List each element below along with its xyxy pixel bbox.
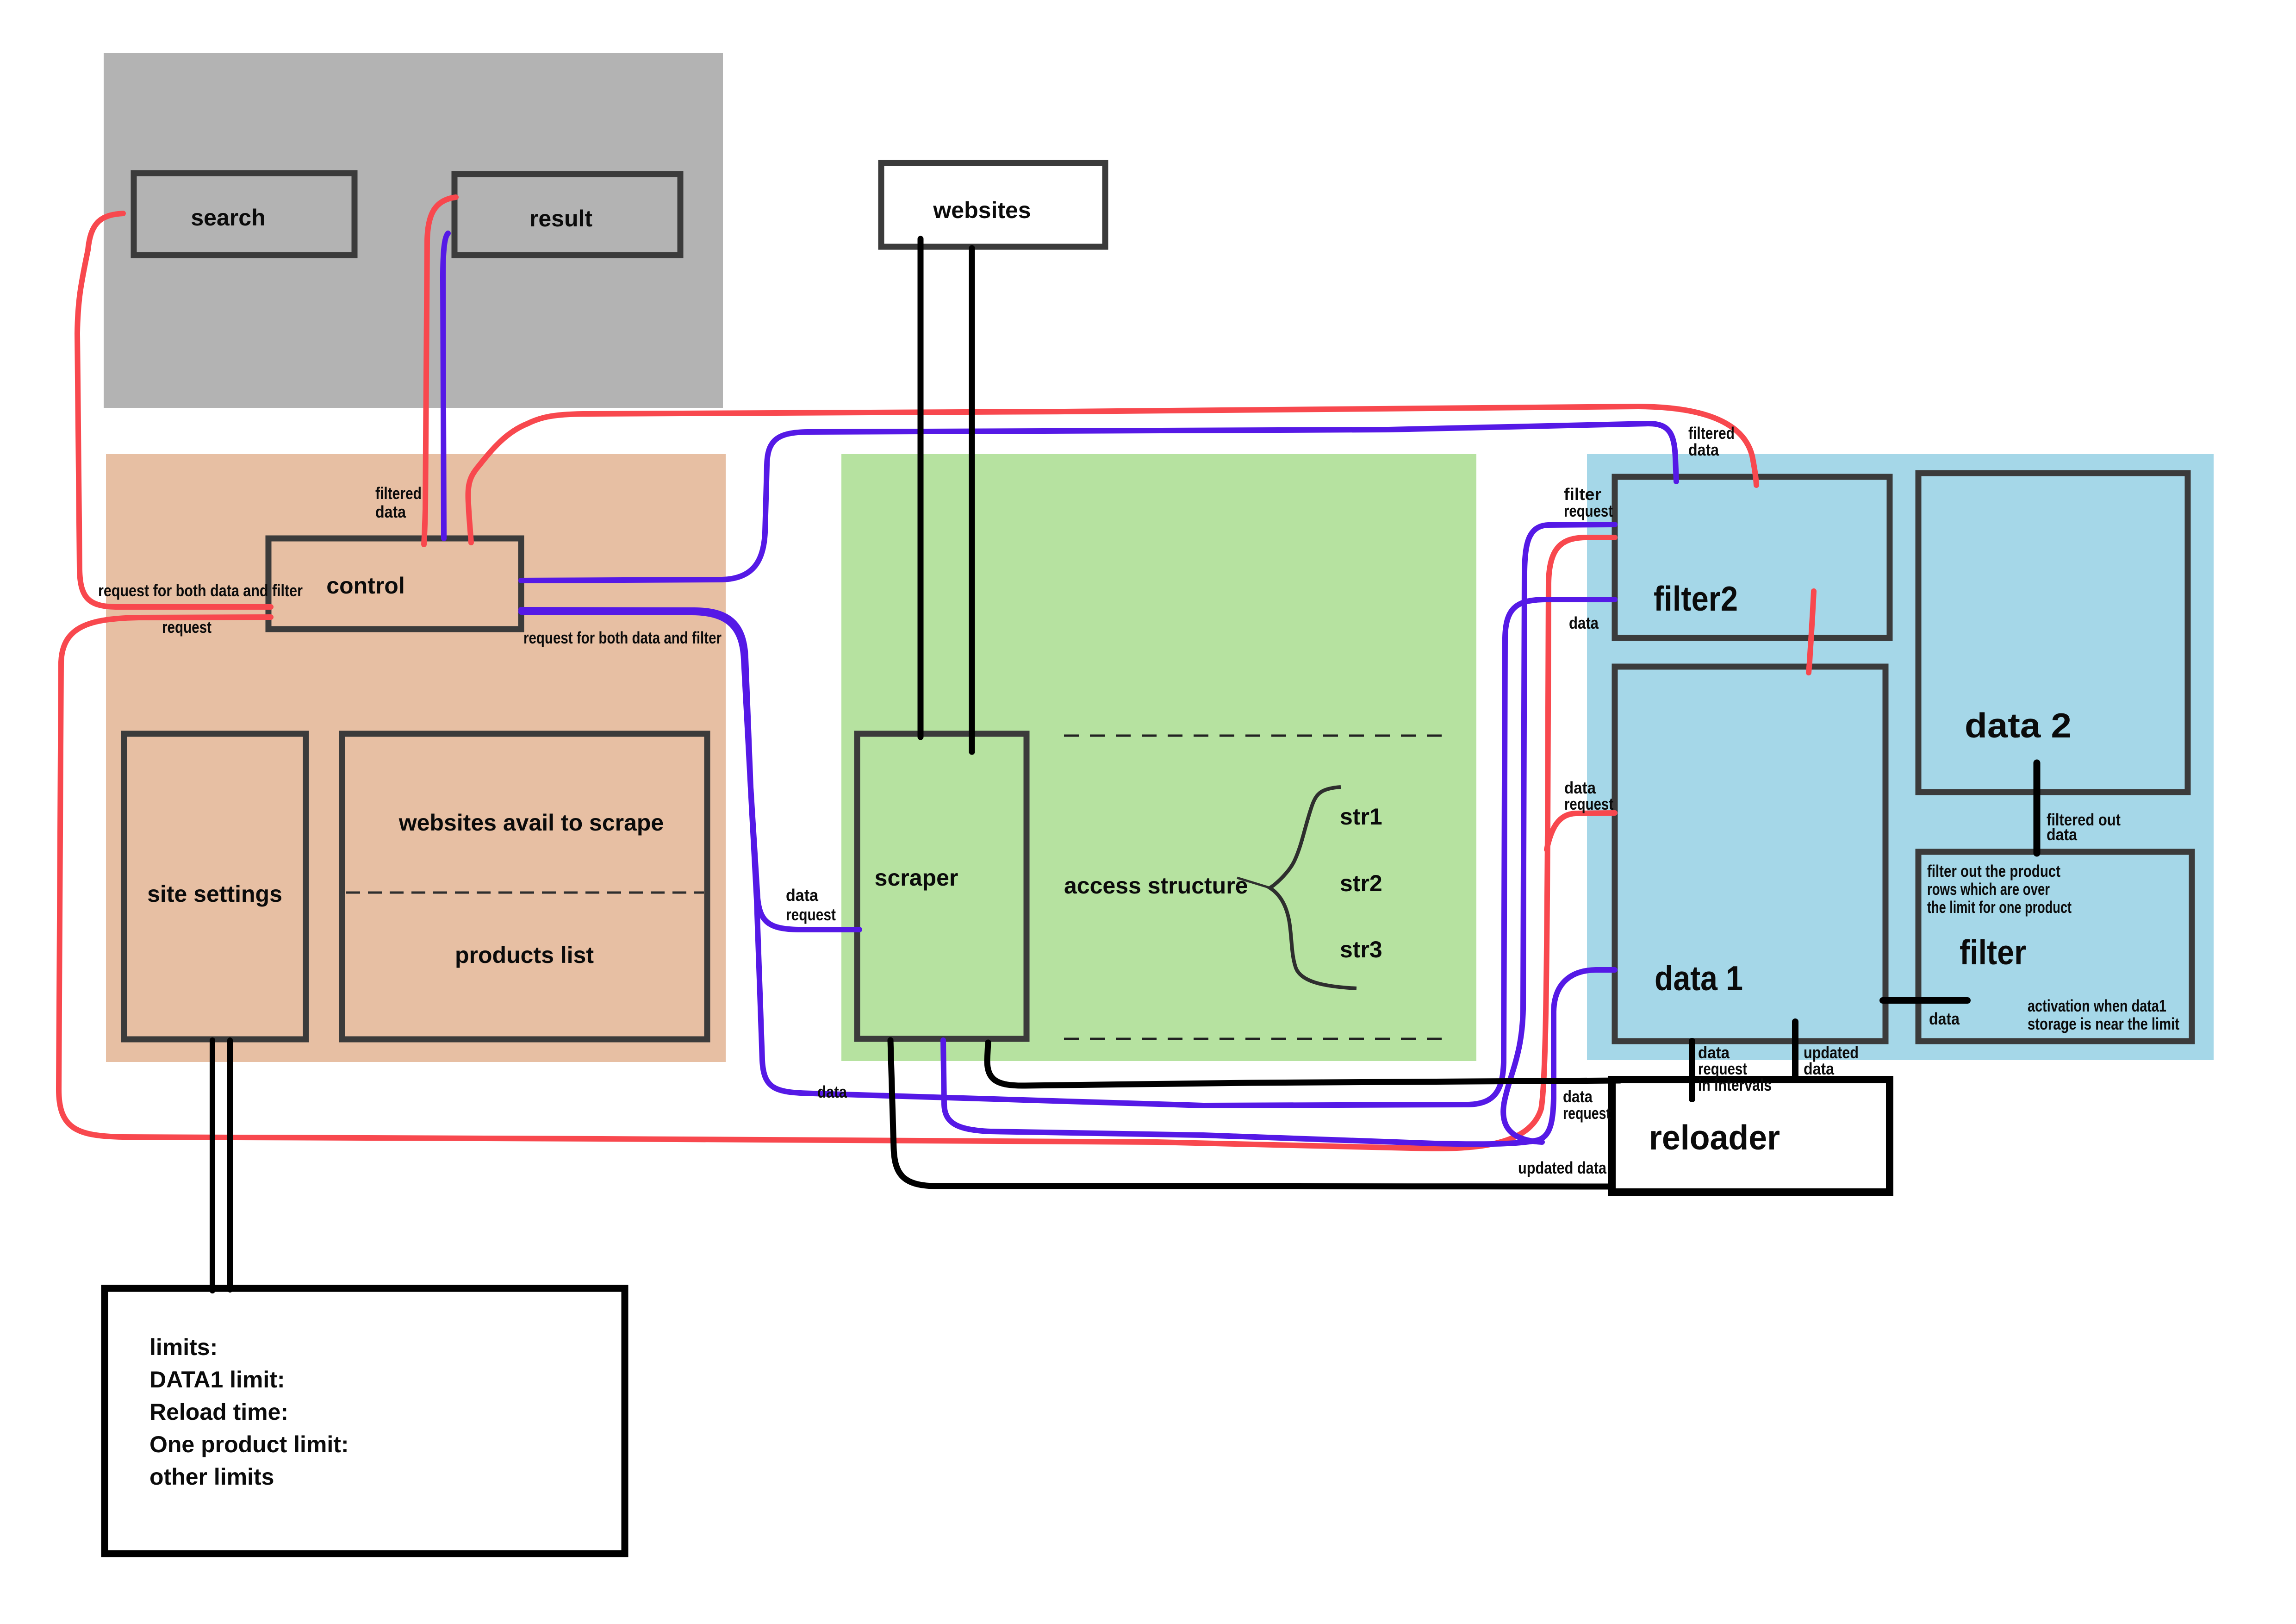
blue data region: [1587, 454, 2214, 1060]
svg-text:websites: websites: [933, 197, 1031, 223]
wire purple result to control top (filtered data): [443, 233, 448, 538]
svg-text:rows which are over: rows which are over: [1927, 880, 2050, 899]
wire black data1 to reloader (updated data): [1792, 1022, 1798, 1079]
svg-text:data: data: [1688, 440, 1719, 459]
curly brace access structure: [1270, 787, 1356, 988]
wire black data2 to filter (filtered out data): [2034, 763, 2041, 853]
wire black data1 to reloader (data request in intervals): [1689, 1041, 1695, 1099]
wire black site settings to limits line right: [227, 1040, 233, 1290]
wire purple scraper bottom to data1 left (data): [943, 970, 1615, 1144]
svg-text:filtered: filtered: [375, 484, 422, 503]
svg-text:filter: filter: [1960, 933, 2026, 972]
svg-text:data: data: [1929, 1009, 1960, 1028]
svg-text:str3: str3: [1340, 937, 1382, 962]
svg-text:activation when data1: activation when data1: [2028, 996, 2166, 1015]
box control: [268, 538, 521, 629]
wire red branch into data1 (data request): [1547, 813, 1615, 849]
svg-text:access structure: access structure: [1064, 873, 1248, 899]
svg-text:reloader: reloader: [1649, 1118, 1780, 1157]
box data 2: [1918, 473, 2188, 792]
wire black websites to scraper left line: [918, 239, 924, 737]
svg-text:data: data: [2047, 825, 2078, 844]
svg-text:request: request: [1563, 1104, 1611, 1123]
wire black scraper bottom right to reloader top (data): [987, 1043, 1620, 1086]
wire black scraper bottom to reloader (updated data): [890, 1040, 1612, 1187]
svg-text:One product limit:: One product limit:: [149, 1431, 349, 1457]
wire purple filter2 left (filter request) down to junction: [1503, 525, 1615, 1142]
svg-text:websites avail to scrape: websites avail to scrape: [398, 810, 664, 836]
svg-text:data: data: [786, 886, 819, 905]
dashed line green top: [1064, 735, 1448, 737]
svg-text:filter2: filter2: [1654, 579, 1738, 618]
salmon control region: [106, 454, 726, 1062]
svg-text:filter out the product: filter out the product: [1927, 862, 2060, 881]
box reloader: [1612, 1080, 1890, 1192]
green scraper region: [841, 454, 1476, 1061]
svg-text:str1: str1: [1340, 804, 1382, 830]
wire black websites to scraper right line: [969, 248, 975, 752]
box filter2: [1615, 477, 1890, 638]
wire red control top to filter2 top (filtered data): [468, 406, 1756, 543]
box websites: [881, 163, 1105, 247]
svg-text:control: control: [326, 573, 404, 599]
wire black data1 to filter (data): [1883, 997, 1967, 1004]
box site settings: [124, 734, 306, 1039]
gray UI region: [104, 53, 723, 408]
svg-text:storage is near the limit: storage is near the limit: [2028, 1014, 2179, 1033]
svg-text:request: request: [786, 905, 836, 924]
svg-text:site settings: site settings: [147, 881, 282, 907]
wire red filter2 bottom to data1 top: [1809, 591, 1814, 673]
svg-text:data: data: [1804, 1059, 1835, 1078]
dashed separator inside websites avail box: [346, 892, 704, 894]
svg-text:DATA1 limit:: DATA1 limit:: [149, 1367, 285, 1393]
svg-text:products list: products list: [455, 942, 594, 968]
svg-text:in intervals: in intervals: [1698, 1075, 1772, 1094]
wire purple control right to filter2 top (filtered data): [521, 424, 1676, 581]
svg-text:Reload time:: Reload time:: [149, 1399, 288, 1425]
svg-text:result: result: [529, 206, 593, 231]
box search: [134, 173, 355, 255]
svg-text:data 1: data 1: [1655, 959, 1743, 998]
svg-text:data: data: [1563, 1087, 1593, 1106]
wire red control left down bottom to filter2 left (request): [59, 537, 1615, 1149]
svg-text:request for both data and filt: request for both data and filter: [523, 628, 722, 647]
svg-text:other limits: other limits: [149, 1464, 274, 1490]
wire red result to control top: [424, 197, 456, 544]
svg-text:request: request: [1564, 501, 1613, 520]
svg-text:data: data: [375, 502, 406, 521]
svg-text:str2: str2: [1340, 870, 1382, 896]
dashed line green bottom: [1064, 1038, 1448, 1040]
wire black site settings to limits line left: [210, 1040, 215, 1291]
svg-text:search: search: [191, 205, 265, 231]
box filter: [1918, 852, 2192, 1041]
box limits: [105, 1288, 625, 1554]
svg-text:request for both data and filt: request for both data and filter: [98, 581, 303, 600]
box scraper: [857, 734, 1027, 1039]
svg-text:scraper: scraper: [875, 865, 958, 891]
box data 1: [1615, 667, 1885, 1041]
svg-text:data: data: [1569, 613, 1599, 632]
svg-text:request: request: [1564, 794, 1613, 813]
brace tip spike: [1237, 878, 1272, 888]
box result: [454, 174, 680, 255]
svg-text:data 2: data 2: [1965, 706, 2072, 745]
svg-text:updated data: updated data: [1518, 1158, 1607, 1177]
wire red search to control left (request for both data and filter): [77, 213, 271, 607]
svg-text:data: data: [817, 1082, 847, 1101]
wire purple control right to scraper left (data request): [521, 610, 859, 930]
svg-text:filtered: filtered: [1688, 424, 1735, 443]
svg-text:limits:: limits:: [149, 1334, 218, 1360]
svg-text:request: request: [162, 618, 212, 637]
wire purple control right down bottom to filter2 left (data): [521, 600, 1615, 1106]
box websites avail to scrape / products list: [342, 734, 707, 1039]
svg-text:the limit for one product: the limit for one product: [1927, 898, 2072, 917]
svg-text:filter: filter: [1564, 485, 1601, 504]
